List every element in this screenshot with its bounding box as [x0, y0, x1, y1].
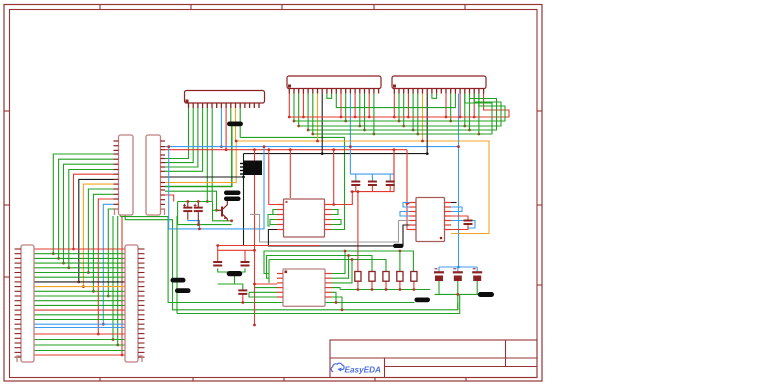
wire J2 red corner	[165, 195, 174, 202]
wire green rail A	[121, 217, 415, 303]
resistor R4	[397, 272, 403, 282]
wire rail y259	[269, 260, 386, 272]
wire row	[34, 248, 125, 250]
wire C4 top lead	[218, 250, 245, 262]
transistor Q1	[218, 201, 228, 221]
wire row	[34, 314, 125, 316]
wire U2 p6	[312, 94, 314, 135]
sheet frame outer	[4, 5, 542, 382]
connector J2 right pins	[161, 141, 166, 209]
wire blue bus	[165, 147, 459, 267]
ferrite bead FB1	[227, 122, 243, 127]
capacitor C7	[351, 182, 360, 186]
wire U3 p2	[398, 94, 400, 122]
ferrite bead FB4	[171, 278, 186, 283]
wire left fan	[108, 209, 113, 296]
polarized capacitor C10	[434, 269, 444, 281]
wire row	[34, 319, 125, 321]
wire J2 row B to Q1 base	[165, 191, 217, 210]
wire U1 p1	[165, 108, 189, 159]
resistor R1	[355, 272, 361, 282]
wire R2 bottom	[371, 281, 373, 289]
wire IC1 left wrap 3	[268, 215, 277, 227]
wire U3 p12	[445, 94, 447, 118]
wire black bus	[244, 153, 428, 155]
wire left fan	[74, 174, 114, 249]
wire IC3 right p1	[332, 251, 346, 274]
wire rail y313	[177, 294, 460, 313]
wire capbox top	[178, 201, 213, 203]
wire U2 p2	[293, 94, 295, 122]
capacitor C5	[238, 290, 247, 294]
wire green level 126	[299, 94, 501, 127]
capacitor C4	[241, 262, 250, 266]
wire polar caps blue rail	[439, 266, 477, 268]
wire row	[34, 323, 125, 325]
wire red rail 245	[218, 245, 320, 247]
wire row	[34, 262, 125, 264]
wire rail y259 rise	[268, 260, 270, 283]
wire IC3 left p5	[249, 291, 277, 293]
wire U1 p11	[235, 108, 237, 141]
polarized capacitor C11	[453, 269, 463, 281]
wire capbox right	[213, 202, 232, 221]
wire row	[34, 257, 125, 259]
wire left fan	[53, 154, 113, 254]
wire U2 p15	[354, 94, 356, 118]
IC U7 (black) body	[244, 161, 263, 176]
wire U3 p13	[450, 94, 452, 122]
wire red drop C	[289, 150, 291, 198]
wire orange net	[165, 141, 489, 234]
wire U2 p18	[368, 94, 370, 118]
wire row	[34, 327, 125, 329]
wire left fan	[93, 194, 113, 291]
wire U2 p7 orange	[317, 94, 319, 142]
connector J1 left pins	[15, 249, 22, 357]
wire IC1 right wrap	[331, 210, 338, 215]
IC U5 pins	[410, 203, 452, 230]
wire U2 p17	[364, 94, 366, 131]
wire block feeder	[117, 216, 119, 345]
wire IC2 cap return	[451, 224, 468, 230]
wire U3 p17	[469, 94, 471, 131]
wire pc3 bottom	[476, 281, 478, 294]
wire black branch IC2	[403, 225, 410, 246]
connector J2 right strip	[146, 135, 161, 215]
wire U2 p3	[298, 94, 300, 127]
frame zone ticks top	[99, 5, 101, 10]
wire row	[34, 344, 125, 346]
wire left fan	[103, 204, 113, 324]
wire bead to J2 row A	[165, 126, 232, 187]
wire rail y255	[267, 256, 373, 279]
wire IC1 right wrap 2	[331, 220, 341, 225]
wire U1 p9	[225, 108, 227, 150]
wire IC2 p1 stub	[407, 203, 410, 205]
wire IC1 left wrap	[273, 210, 277, 215]
wire caps bottom link	[218, 268, 245, 272]
wire capbox bottom	[178, 202, 232, 225]
wire U3 p16	[464, 94, 466, 127]
wire row	[34, 267, 125, 269]
wire left fan	[88, 189, 113, 273]
wire IC2 left blue wrap	[403, 203, 410, 208]
wire IC2 black stub	[451, 202, 457, 204]
frame zone ticks right	[537, 110, 542, 112]
wire pc3 top stub	[476, 267, 478, 272]
wire black row	[165, 176, 244, 178]
frame zone ticks bottom	[99, 378, 101, 382]
wire R4 bottom	[399, 281, 401, 289]
connector U2 pins	[289, 89, 378, 94]
connector J1 right pins	[138, 249, 145, 357]
wire left fan	[64, 164, 114, 263]
capacitor C3	[213, 262, 222, 266]
wire U2 p1	[288, 94, 290, 118]
ferrite bead FB5	[175, 288, 191, 293]
wire polar caps rail	[435, 293, 479, 295]
wire C2 top lead	[197, 202, 199, 208]
wire left fan	[79, 179, 114, 282]
wire red bus 117	[289, 94, 509, 118]
wire U1 p5	[206, 108, 208, 202]
wire gray net	[250, 214, 410, 242]
IC U5 body	[416, 198, 445, 242]
wire row	[34, 272, 125, 274]
wire cap bottom stub	[389, 185, 391, 192]
wire IC3 left p4	[255, 287, 277, 289]
wire U2 green U	[327, 94, 332, 99]
wire green level 130	[308, 94, 496, 131]
wire U2 p12	[340, 94, 342, 118]
wire row	[34, 290, 125, 292]
wire cap top stub	[371, 174, 373, 181]
connector J1 feet	[17, 356, 142, 362]
sheet frame inner	[10, 10, 538, 378]
wire U1 p12 stub	[239, 108, 241, 137]
wire row	[34, 304, 125, 306]
wire red to IC2	[407, 150, 410, 230]
wire U2 p8 black	[321, 94, 323, 154]
wire red to IC3	[255, 283, 278, 285]
wire C5 top stub	[235, 284, 243, 290]
capacitor C2	[194, 208, 203, 212]
wire red drop E	[393, 150, 395, 192]
wire U2-U3 green link	[336, 94, 455, 108]
wire U3 p8 black	[426, 94, 428, 154]
wire left fan	[59, 159, 114, 258]
wire U3 p19	[478, 94, 480, 135]
wire U2 p16	[359, 94, 361, 127]
wire IC3 right p6	[332, 297, 343, 310]
wire U3 p18	[473, 94, 475, 118]
capacitor C6	[464, 221, 473, 225]
polarized capacitor C12	[472, 269, 482, 281]
wire U3 p7 orange	[422, 94, 424, 142]
capacitor C1	[183, 208, 192, 212]
wire U1 p10 stub	[230, 108, 232, 122]
wire rail y289	[340, 289, 430, 291]
wire row	[34, 309, 125, 311]
wire left fan	[69, 170, 114, 268]
wire U1 p3	[165, 108, 198, 167]
connector U2 body	[287, 76, 381, 89]
wire rail y251	[264, 251, 413, 274]
wire cap top stub	[389, 174, 391, 181]
wire blue loop	[169, 147, 264, 229]
capacitor C8	[368, 182, 377, 186]
wire rail y313 feeder	[176, 216, 178, 314]
wire pc2 bottom	[457, 281, 459, 310]
wire block feeder	[112, 216, 114, 340]
IC U6 pins	[277, 274, 332, 298]
connector J2 left strip	[119, 135, 134, 215]
wire black IC1-IC2	[268, 230, 403, 246]
wire U3 p6	[417, 94, 419, 135]
wire IC3 right p5	[332, 292, 337, 302]
wire IC2 left blue wrap 2	[400, 212, 410, 217]
wire red drop D	[333, 150, 335, 205]
ferrite bead FB7	[393, 244, 404, 248]
wire IC1 left wrap 2	[270, 220, 277, 225]
wire U3 p4	[407, 94, 409, 118]
wire IC3 right p4	[332, 288, 341, 290]
wire left fan	[83, 184, 113, 287]
wire block feeder	[121, 216, 123, 355]
wire cap bottom stub	[355, 185, 357, 192]
connector J2 feet	[115, 209, 165, 215]
wire U3 p3	[403, 94, 405, 127]
resistor R2	[369, 272, 375, 282]
wire C1 blue jog	[188, 219, 200, 229]
wire U1 p2	[165, 108, 193, 163]
wire U1 p8	[220, 108, 222, 147]
wire U3 blue drop	[458, 94, 460, 147]
connector U1 body	[185, 91, 265, 104]
connector J1 left strip	[21, 245, 34, 362]
wire row	[34, 253, 125, 255]
EasyEDA logo	[331, 363, 381, 374]
wire IC2 cap lead	[451, 216, 468, 221]
wire C5 branch	[218, 272, 235, 284]
wire IC2 right blue wrap 2	[451, 221, 475, 229]
wire C1 top lead	[187, 202, 189, 208]
wire green bus net	[240, 137, 344, 229]
wire U3 p5	[412, 94, 414, 131]
IC U6 body	[283, 269, 325, 306]
connector U1 pins	[189, 103, 260, 108]
wire row	[34, 339, 125, 341]
connector J1 right strip	[125, 245, 138, 362]
wire red bus	[165, 149, 407, 151]
wire U2 p19	[373, 94, 375, 135]
wire green rail B	[125, 215, 458, 310]
wire R3 bottom	[385, 281, 387, 289]
ferrite bead FB8	[415, 298, 431, 303]
wire U2 p13	[345, 94, 347, 122]
connector U3 body	[392, 76, 486, 89]
wire red drop A	[254, 150, 256, 325]
wire U1 p4	[165, 108, 203, 171]
svg-text:EasyEDA: EasyEDA	[345, 366, 381, 375]
ferrite bead FB9	[478, 292, 494, 297]
wire IC3 left p6	[249, 292, 277, 297]
ferrite bead FB2	[224, 191, 241, 196]
wire IC2 right blue wrap	[451, 207, 462, 212]
frame zone ticks left	[4, 110, 10, 112]
wire pc1 bottom	[438, 281, 440, 294]
wire U2 p5	[307, 94, 309, 131]
connector J2 left pins	[114, 141, 119, 209]
wire IC3 right p3	[332, 260, 353, 283]
wire row	[34, 281, 125, 283]
wire rail A riser	[120, 215, 122, 217]
wire U3 green U	[432, 94, 437, 99]
wire R1 bottom	[357, 281, 359, 289]
wire caps to IC1	[331, 192, 352, 205]
wire C1 bottom lead	[187, 212, 189, 219]
wire row	[34, 295, 125, 297]
wire caps red rail	[350, 150, 394, 192]
wire U1 p6 net	[211, 108, 213, 202]
wire U3 p1	[393, 94, 395, 118]
wire red long to R1	[357, 192, 359, 272]
wire green level 134	[313, 94, 492, 135]
wire row	[34, 333, 125, 335]
wire row	[34, 300, 125, 302]
wire row	[34, 286, 125, 288]
wire link to red drop	[245, 249, 255, 251]
wire caps blue rail	[350, 173, 394, 175]
IC U4 pins	[277, 205, 331, 230]
wire black vertical	[243, 154, 245, 246]
wire U2 blue drop	[349, 94, 351, 175]
ferrite bead FB3	[224, 197, 241, 202]
wire cap bottom stub	[371, 185, 373, 192]
wire pc2 top stub	[457, 267, 459, 272]
wire row	[34, 276, 125, 278]
connector U3 pins	[394, 89, 483, 94]
wire row	[34, 350, 125, 352]
wire Q1 base lead	[213, 209, 218, 211]
wire green level 121	[294, 94, 505, 122]
wire left fan	[98, 199, 113, 334]
wire pc1 top stub	[438, 267, 440, 272]
wire C5 bottom stub	[242, 294, 244, 303]
resistor R3	[383, 272, 389, 282]
wire U3 p15	[459, 94, 461, 118]
wire C2 bottom lead	[197, 212, 199, 224]
wire R4 top stub	[399, 251, 401, 272]
ferrite bead FB6	[227, 271, 243, 276]
capacitor C9	[386, 182, 395, 186]
resistor R5	[411, 272, 417, 282]
wire cap top stub	[355, 174, 357, 181]
wire red drop B	[269, 150, 277, 205]
wire R5 bottom	[413, 281, 415, 289]
wire row	[34, 354, 125, 356]
wire IC3 right p2	[332, 256, 349, 279]
IC U7 pins	[240, 164, 244, 175]
wire U2 p4	[302, 94, 304, 118]
wire C3 top lead	[217, 246, 219, 263]
title block	[330, 340, 537, 378]
IC U4 body	[284, 199, 325, 237]
